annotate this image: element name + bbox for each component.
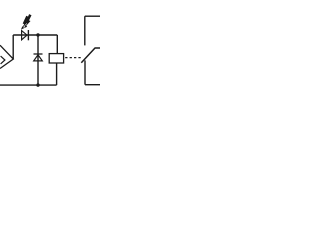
relay coil K1 box xyxy=(49,54,63,63)
wire top rail xyxy=(13,34,57,36)
LED emission lightning arrow 1 xyxy=(22,16,29,29)
node junction bottom (flyback return) xyxy=(36,83,39,86)
LED D1 triangle xyxy=(22,31,27,40)
wire flyback branch vertical xyxy=(37,35,39,85)
switch SW1 common terminal vertical xyxy=(84,60,86,84)
mechanical linkage (dashed) xyxy=(65,57,82,59)
wire bottom-right to edge xyxy=(85,84,100,86)
switch SW1 blade (moving contact) xyxy=(81,48,100,63)
relay coil bottom pin wire xyxy=(56,63,58,85)
bridge internal diode arrow xyxy=(1,56,5,64)
node junction top (coil branch) xyxy=(36,33,39,36)
LED emission lightning arrow 2 xyxy=(25,14,32,28)
flyback diode D2 triangle (pointing up) xyxy=(34,55,43,61)
LED emission lightning arrow 2 head xyxy=(24,25,27,28)
bridge rectifier B1 (diamond, cut by left edge) xyxy=(0,45,13,68)
wire bottom rail xyxy=(0,84,57,86)
wire top rail drop to relay coil xyxy=(56,35,58,54)
wire left drop from top rail to bridge xyxy=(12,35,14,59)
flyback diode D2 cathode bar xyxy=(34,53,43,55)
LED emission lightning arrow 1 head xyxy=(21,26,24,29)
switch SW1 fixed contact stub from top xyxy=(84,16,86,45)
LED D1 cathode bar xyxy=(27,30,29,40)
wire top-right bracket to edge xyxy=(85,15,100,17)
